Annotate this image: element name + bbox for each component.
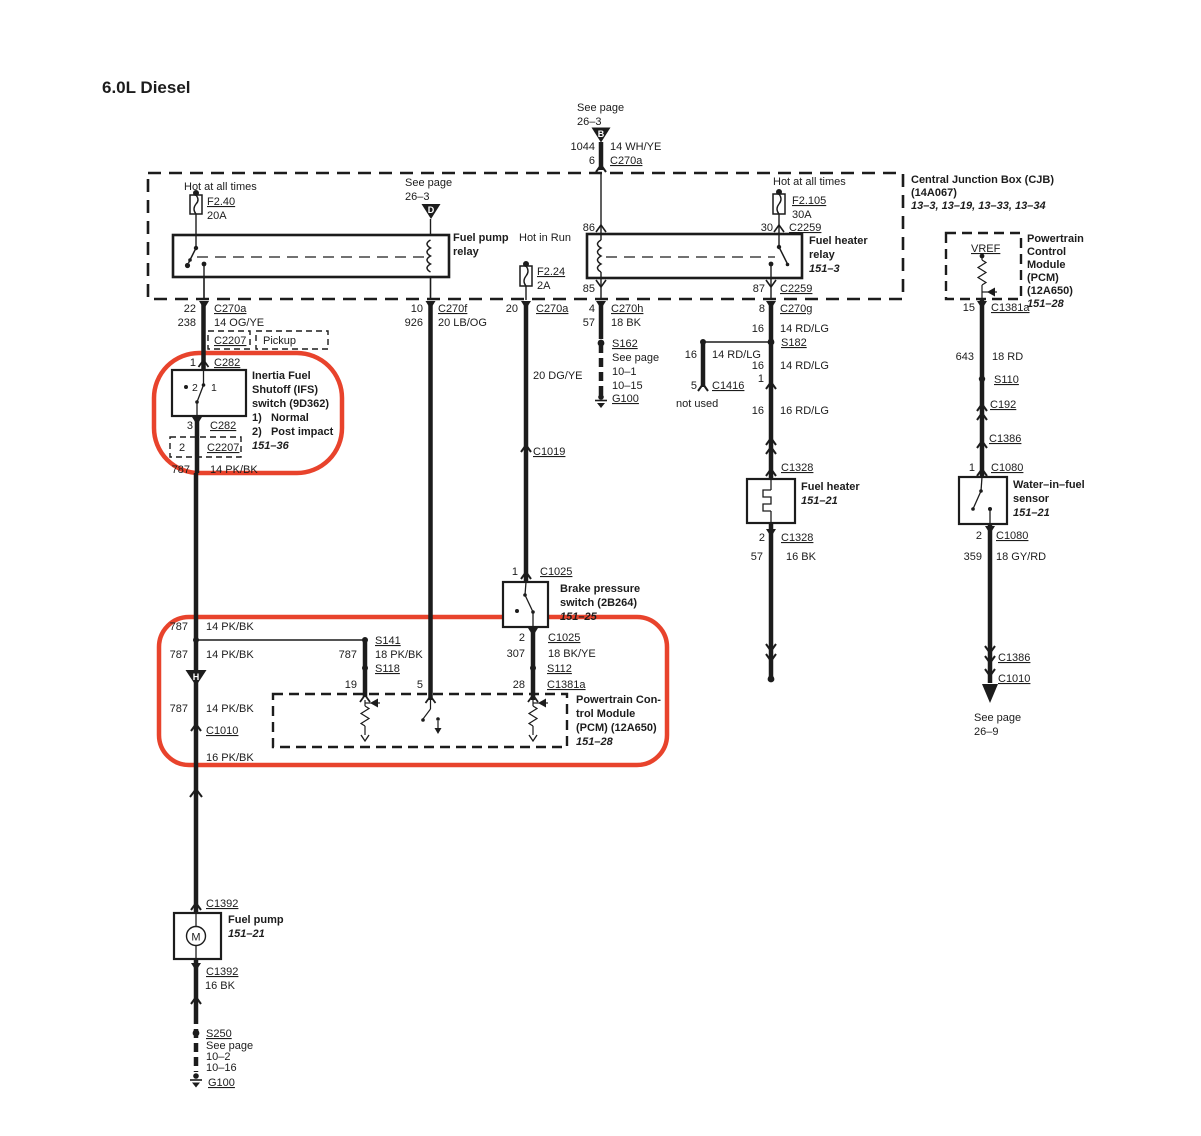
wire circuit 787 long run down to PCM area	[194, 473, 199, 770]
PCM dashed box (VREF)	[946, 233, 1021, 299]
label 1044 14 WH/YE	[571, 141, 662, 153]
svg-text:2: 2	[759, 532, 765, 544]
label pin 22 C270a	[184, 303, 248, 315]
svg-text:1044: 1044	[571, 141, 595, 153]
svg-text:C1010: C1010	[998, 673, 1030, 685]
svg-text:C270f: C270f	[438, 303, 468, 315]
svg-text:Brake pressure: Brake pressure	[560, 583, 640, 595]
svg-text:22: 22	[184, 303, 196, 315]
svg-text:16: 16	[685, 349, 697, 361]
svg-text:13–3, 13–19, 13–33, 13–34: 13–3, 13–19, 13–33, 13–34	[911, 200, 1046, 212]
svg-text:S110: S110	[994, 374, 1019, 386]
wire circuit 787 18 PK/BK (S141 to S118)	[339, 640, 424, 697]
S250 see page text	[206, 1040, 253, 1074]
fuel pump motor symbol	[187, 913, 206, 959]
wire relay pin 10 to CJB edge	[426, 277, 436, 309]
svg-text:2A: 2A	[537, 280, 551, 292]
VREF node	[971, 243, 1001, 258]
svg-text:14 PK/BK: 14 PK/BK	[206, 649, 254, 661]
svg-text:16: 16	[752, 360, 764, 372]
fuel heater box	[747, 479, 795, 523]
svg-text:C282: C282	[214, 357, 240, 369]
node B see page reference	[577, 102, 624, 128]
svg-text:18 PK/BK: 18 PK/BK	[375, 649, 423, 661]
wire brake switch pin 2 down to PCM	[519, 627, 581, 700]
svg-text:switch (2B264): switch (2B264)	[560, 597, 637, 609]
svg-text:787: 787	[339, 649, 357, 661]
connector C1019	[521, 445, 565, 458]
svg-text:Inertia Fuel: Inertia Fuel	[252, 370, 311, 382]
svg-text:16: 16	[752, 323, 764, 335]
svg-text:F2.105: F2.105	[792, 195, 826, 207]
svg-text:C1386: C1386	[998, 652, 1030, 664]
wire circuit 238 from CJB to IFS switch	[201, 301, 206, 370]
wire fuse F2.24 to CJB edge	[521, 286, 531, 309]
fuel heater relay box	[587, 234, 802, 278]
svg-text:307: 307	[507, 648, 525, 660]
connector C2207 dashed callout	[208, 331, 250, 349]
svg-text:86: 86	[583, 222, 595, 234]
svg-text:See page: See page	[612, 352, 659, 364]
triangle connector D	[422, 204, 441, 219]
svg-text:S118: S118	[375, 663, 400, 675]
Central Junction Box (CJB) dashed enclosure	[148, 173, 903, 299]
svg-text:C1328: C1328	[781, 532, 813, 544]
PCM dashed box (bottom)	[273, 694, 567, 747]
label pin 28 C1381a	[513, 679, 587, 691]
svg-text:F2.24: F2.24	[537, 266, 565, 278]
junction dot to S141	[193, 637, 365, 643]
svg-text:S182: S182	[781, 337, 807, 349]
fuel pump box	[174, 913, 221, 959]
connector C2207 dashed callout (lower)	[170, 437, 241, 457]
ground G100 (bottom)	[190, 1073, 235, 1089]
svg-text:Control: Control	[1027, 246, 1066, 258]
ground G100 (center)	[595, 393, 639, 408]
connector C1328 (top)	[766, 462, 813, 476]
wire circuit 926 from CJB down to PCM	[428, 301, 433, 700]
wire relay pin 87 to CJB edge	[753, 278, 813, 309]
svg-text:151–36: 151–36	[252, 440, 290, 452]
svg-text:C1386: C1386	[989, 433, 1021, 445]
svg-text:10–16: 10–16	[206, 1062, 237, 1074]
label 787 14 PK/BK (in red box, 2nd)	[170, 649, 255, 661]
svg-text:relay: relay	[453, 246, 480, 258]
water-in-fuel sensor internals	[971, 477, 992, 524]
svg-text:151–3: 151–3	[809, 263, 840, 275]
svg-text:20 LB/OG: 20 LB/OG	[438, 317, 487, 329]
inline connector pin 1	[758, 373, 776, 389]
connector C1386 (upper)	[977, 433, 1021, 448]
svg-text:787: 787	[170, 621, 188, 633]
label pin 1 C282	[190, 357, 240, 369]
fuel pump label	[228, 914, 284, 940]
wire relay pin 22 to CJB edge	[199, 277, 209, 309]
fuel pump relay switch	[185, 235, 207, 277]
red highlight rounded box around PCM circuits	[159, 617, 667, 765]
PCM VREF label	[1027, 233, 1084, 310]
svg-text:Fuel heater: Fuel heater	[801, 481, 860, 493]
svg-text:C1381a: C1381a	[547, 679, 586, 691]
svg-text:See page: See page	[974, 712, 1021, 724]
svg-text:relay: relay	[809, 249, 836, 261]
fuel heater relay label	[809, 235, 868, 275]
svg-text:Hot at all times: Hot at all times	[773, 176, 846, 188]
svg-text:Shutoff (IFS): Shutoff (IFS)	[252, 384, 318, 396]
svg-text:H: H	[193, 672, 200, 682]
svg-text:1: 1	[190, 357, 196, 369]
node D see page reference	[405, 177, 452, 203]
brake pressure switch box (2B264)	[503, 582, 548, 627]
svg-text:switch (9D362): switch (9D362)	[252, 398, 329, 410]
svg-text:14 PK/BK: 14 PK/BK	[206, 703, 254, 715]
svg-text:2: 2	[179, 442, 185, 454]
svg-text:1: 1	[758, 373, 764, 385]
water-in-fuel sensor box	[959, 477, 1007, 524]
svg-text:151–25: 151–25	[560, 611, 598, 623]
splice S110	[979, 374, 1019, 386]
svg-text:19: 19	[345, 679, 357, 691]
svg-text:C270h: C270h	[611, 303, 643, 315]
water-in-fuel sensor label	[1013, 479, 1085, 519]
wire fuel heater pin 2 down	[759, 523, 814, 678]
fuse F2.105 30A	[773, 189, 826, 221]
svg-text:C1328: C1328	[781, 462, 813, 474]
dashed ground run	[194, 1015, 199, 1072]
S162 see page text	[612, 352, 659, 392]
svg-text:Water–in–fuel: Water–in–fuel	[1013, 479, 1085, 491]
wire from B into CJB (circuit 1044 14 WH/YE)	[596, 142, 606, 172]
PCM pin 19 input (resistor to ground)	[360, 695, 380, 741]
svg-text:C1392: C1392	[206, 898, 238, 910]
svg-text:S162: S162	[612, 338, 638, 350]
fuel pump relay coil	[427, 240, 431, 272]
wire fuel pump to ground	[191, 959, 238, 1015]
svg-text:18 GY/RD: 18 GY/RD	[996, 551, 1046, 563]
svg-text:151–21: 151–21	[1013, 507, 1050, 519]
svg-text:14 PK/BK: 14 PK/BK	[206, 621, 254, 633]
svg-text:6: 6	[589, 155, 595, 167]
label 359 18 GY/RD	[964, 551, 1047, 563]
svg-text:10–15: 10–15	[612, 380, 643, 392]
svg-text:2: 2	[976, 530, 982, 542]
red highlight oval around IFS switch	[154, 353, 342, 473]
svg-text:4: 4	[589, 303, 595, 315]
splice S118	[362, 663, 400, 675]
inline connector chevrons (lower)	[766, 644, 776, 661]
svg-text:151–21: 151–21	[228, 928, 265, 940]
label pin 10 C270f	[411, 303, 469, 315]
wire B inside CJB down to relay pin 86	[583, 173, 606, 234]
svg-text:16: 16	[752, 405, 764, 417]
svg-text:C1019: C1019	[533, 446, 565, 458]
fuel pump relay internal dashed link	[197, 256, 424, 258]
wire circuit 20 DG/YE from CJB to brake pressure switch	[526, 301, 583, 582]
label pin 1 C1080	[969, 462, 1024, 476]
svg-text:See page: See page	[577, 102, 624, 114]
svg-text:10: 10	[411, 303, 423, 315]
svg-text:C2207: C2207	[214, 335, 246, 347]
inline connector chevron	[191, 997, 201, 1004]
wire IFS pin 3 down	[187, 416, 236, 473]
svg-text:D: D	[428, 205, 435, 215]
svg-text:G100: G100	[612, 393, 639, 405]
svg-text:8: 8	[759, 303, 765, 315]
label pin 20 C270a	[506, 303, 570, 315]
label pin 4 C270h	[589, 303, 644, 315]
svg-text:10–1: 10–1	[612, 366, 636, 378]
svg-text:1: 1	[211, 382, 217, 394]
svg-text:26–3: 26–3	[405, 191, 429, 203]
svg-text:C1025: C1025	[540, 566, 572, 578]
svg-text:C1080: C1080	[996, 530, 1028, 542]
splice S141	[362, 635, 401, 647]
fuel pump relay box	[173, 235, 449, 277]
svg-text:787: 787	[170, 703, 188, 715]
wire relay pin 85 to CJB edge	[583, 278, 606, 309]
svg-text:2) Post impact: 2) Post impact	[252, 426, 334, 438]
label 57 18 BK	[583, 317, 642, 329]
svg-text:S112: S112	[547, 663, 572, 675]
svg-text:5: 5	[691, 380, 697, 392]
svg-text:359: 359	[964, 551, 982, 563]
svg-text:26–3: 26–3	[577, 116, 601, 128]
svg-text:Hot in Run: Hot in Run	[519, 232, 571, 244]
connector C1392 (top)	[191, 898, 238, 910]
terminal dot	[768, 676, 775, 683]
svg-text:S141: S141	[375, 635, 401, 647]
fuse F2.24 2A	[520, 261, 565, 292]
svg-text:14 WH/YE: 14 WH/YE	[610, 141, 661, 153]
inline connector chevron below red box	[190, 789, 202, 797]
svg-text:787: 787	[172, 464, 190, 476]
connector C192	[977, 399, 1016, 420]
svg-text:Module: Module	[1027, 259, 1066, 271]
svg-text:30A: 30A	[792, 209, 812, 221]
svg-text:C1025: C1025	[548, 632, 580, 644]
svg-text:30: 30	[761, 222, 773, 234]
svg-text:C270a: C270a	[610, 155, 643, 167]
svg-text:M: M	[191, 932, 200, 944]
svg-text:sensor: sensor	[1013, 493, 1050, 505]
svg-text:787: 787	[170, 649, 188, 661]
svg-text:16 RD/LG: 16 RD/LG	[780, 405, 829, 417]
svg-text:85: 85	[583, 283, 595, 295]
wire D to fuel pump relay coil	[430, 219, 432, 240]
wire circuit 16 PK/BK down to fuel pump	[194, 770, 199, 913]
svg-text:1: 1	[969, 462, 975, 474]
svg-text:B: B	[598, 129, 605, 139]
splice S112	[530, 663, 572, 675]
brake pressure switch label	[560, 583, 640, 623]
PCM pin 5 input (switch)	[421, 696, 441, 734]
svg-text:16 BK: 16 BK	[205, 980, 236, 992]
label pin 6 C270a	[589, 155, 643, 167]
svg-text:14 PK/BK: 14 PK/BK	[210, 464, 258, 476]
svg-text:C282: C282	[210, 420, 236, 432]
svg-text:20A: 20A	[207, 210, 227, 222]
fuel heater relay switch	[769, 234, 790, 278]
PCM pin 28 input (resistor to ground)	[528, 695, 548, 741]
svg-text:14 OG/YE: 14 OG/YE	[214, 317, 264, 329]
label 16 16 RD/LG	[752, 405, 829, 417]
PCM bottom label	[576, 694, 661, 748]
svg-text:643: 643	[956, 351, 974, 363]
svg-text:926: 926	[405, 317, 423, 329]
svg-text:238: 238	[178, 317, 196, 329]
label 787 14 PK/BK (in red box, 1st)	[170, 621, 255, 633]
svg-text:trol Module: trol Module	[576, 708, 635, 720]
svg-text:5: 5	[417, 679, 423, 691]
svg-text:F2.40: F2.40	[207, 196, 235, 208]
brake pressure switch internals	[515, 582, 535, 627]
label 926 20 LB/OG	[405, 317, 487, 329]
IFS switch label	[252, 370, 334, 452]
IFS switch internals	[184, 370, 217, 416]
splice S162	[598, 338, 638, 350]
label 16 14 RD/LG (above S182)	[752, 323, 829, 335]
svg-text:See page: See page	[405, 177, 452, 189]
svg-text:15: 15	[963, 302, 975, 314]
connector C1010 on left wire	[191, 724, 238, 737]
fuel heater relay coil	[598, 234, 602, 278]
wire circuit 14 RD/LG from CJB to fuel heater	[769, 301, 774, 479]
svg-text:2: 2	[519, 632, 525, 644]
triangle connector B	[592, 128, 611, 143]
label 57 16 BK	[751, 551, 817, 563]
svg-text:C2259: C2259	[789, 222, 821, 234]
svg-text:G100: G100	[208, 1077, 235, 1089]
splice S250	[193, 1028, 232, 1040]
svg-text:14 RD/LG: 14 RD/LG	[780, 323, 829, 335]
svg-text:151–21: 151–21	[801, 495, 838, 507]
wire PCM pin 15 to sensor	[963, 299, 1031, 477]
svg-text:16 PK/BK: 16 PK/BK	[206, 752, 254, 764]
label 643 18 RD	[956, 351, 1024, 363]
fuse F2.40 20A	[190, 190, 235, 222]
VREF pull-up resistor	[978, 256, 997, 299]
svg-text:C1010: C1010	[206, 725, 238, 737]
Pickup dashed callout	[256, 331, 328, 349]
svg-text:C192: C192	[990, 399, 1016, 411]
svg-text:C2259: C2259	[780, 283, 812, 295]
svg-text:Powertrain: Powertrain	[1027, 233, 1084, 245]
stub wire to C1416 not used	[676, 342, 761, 410]
fuel pump relay label	[453, 232, 509, 258]
svg-text:151–28: 151–28	[1027, 298, 1065, 310]
svg-text:28: 28	[513, 679, 525, 691]
inline connector chevrons	[766, 438, 776, 454]
svg-text:16 BK: 16 BK	[786, 551, 817, 563]
splice S182	[700, 337, 807, 349]
wire fuse F2.40 to relay	[195, 214, 197, 248]
svg-text:C2207: C2207	[207, 442, 239, 454]
connector C1010 (lower)	[985, 669, 1030, 685]
wire fuse F2.105 to relay pin 30	[761, 214, 822, 234]
svg-text:S250: S250	[206, 1028, 232, 1040]
svg-text:1: 1	[512, 566, 518, 578]
label 787 14 PK/BK (top)	[172, 464, 259, 476]
svg-text:C270a: C270a	[536, 303, 569, 315]
svg-text:(PCM): (PCM)	[1027, 272, 1059, 284]
svg-text:Central Junction Box (CJB): Central Junction Box (CJB)	[911, 174, 1054, 186]
svg-text:C1080: C1080	[991, 462, 1023, 474]
svg-text:26–9: 26–9	[974, 726, 998, 738]
label pin 8 C270g	[759, 303, 813, 315]
svg-text:18 BK: 18 BK	[611, 317, 642, 329]
svg-text:Pickup: Pickup	[263, 335, 296, 347]
wire circuit 57 to ground G100 (dashed run)	[599, 301, 604, 396]
svg-text:C270a: C270a	[214, 303, 247, 315]
svg-text:2: 2	[192, 382, 198, 394]
inertia fuel shutoff switch box (9D362)	[172, 370, 246, 416]
fuel heater relay internal dashed link	[606, 256, 775, 258]
svg-text:6.0L Diesel: 6.0L Diesel	[102, 78, 191, 97]
svg-text:57: 57	[583, 317, 595, 329]
label 787 14 PK/BK (in red box, 3rd)	[170, 703, 255, 715]
fuel heater element symbol	[763, 479, 771, 523]
triangle connector H	[186, 670, 207, 686]
svg-text:18 RD: 18 RD	[992, 351, 1023, 363]
label 16 14 RD/LG (below S182)	[752, 360, 829, 372]
label pin 1 C1025	[512, 566, 573, 579]
svg-text:57: 57	[751, 551, 763, 563]
svg-text:87: 87	[753, 283, 765, 295]
wire sensor pin 2 down	[976, 524, 1029, 683]
svg-text:20: 20	[506, 303, 518, 315]
svg-text:(PCM) (12A650): (PCM) (12A650)	[576, 722, 657, 734]
svg-text:151–28: 151–28	[576, 736, 614, 748]
svg-text:Fuel heater: Fuel heater	[809, 235, 868, 247]
svg-text:C270g: C270g	[780, 303, 812, 315]
svg-text:Fuel pump: Fuel pump	[228, 914, 284, 926]
connector C1386 (lower)	[985, 646, 1030, 664]
label 307 18 BK/YE	[507, 648, 596, 660]
off-page arrow to 26-9	[974, 684, 1021, 738]
svg-text:C1381a: C1381a	[991, 302, 1030, 314]
svg-text:3: 3	[187, 420, 193, 432]
svg-text:Powertrain Con-: Powertrain Con-	[576, 694, 661, 706]
svg-text:C1416: C1416	[712, 380, 744, 392]
label 238 14 OG/YE	[178, 317, 265, 329]
svg-text:(12A650): (12A650)	[1027, 285, 1073, 297]
svg-text:18 BK/YE: 18 BK/YE	[548, 648, 596, 660]
CJB name label	[911, 174, 1054, 212]
svg-text:VREF: VREF	[971, 243, 1001, 255]
svg-text:1) Normal: 1) Normal	[252, 412, 309, 424]
svg-text:20 DG/YE: 20 DG/YE	[533, 370, 583, 382]
svg-text:(14A067): (14A067)	[911, 187, 957, 199]
svg-text:C1392: C1392	[206, 966, 238, 978]
svg-text:Fuel pump: Fuel pump	[453, 232, 509, 244]
svg-text:14 RD/LG: 14 RD/LG	[780, 360, 829, 372]
svg-text:not used: not used	[676, 398, 718, 410]
fuel heater label	[801, 481, 860, 507]
